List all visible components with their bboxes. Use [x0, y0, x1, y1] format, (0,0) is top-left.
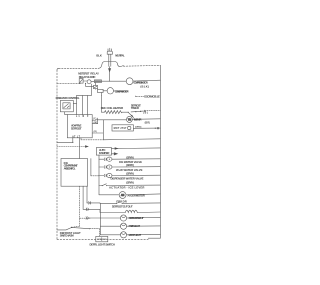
svg-text:NEUTRAL: NEUTRAL [115, 53, 125, 57]
right neutral bus [148, 65, 160, 238]
motor start relay cluster [79, 79, 103, 96]
svg-text:(BR): (BR) [145, 122, 151, 124]
compressor motor [126, 78, 133, 85]
freezer door switch rung [87, 202, 160, 205]
meat light bulb [120, 232, 126, 238]
rung board to timer motor [96, 119, 127, 121]
defrost heater rung [83, 209, 160, 212]
svg-text:DEFROST: DEFROST [71, 126, 82, 130]
wire cond fan right [114, 90, 129, 92]
cabinet outline bottom dashed [57, 238, 148, 240]
svg-text:AM: AM [121, 194, 124, 197]
defrost heater coil [125, 210, 137, 212]
ice compartment box [61, 159, 88, 187]
arrow on line cord [109, 67, 111, 72]
dispenser water valve rung [99, 174, 160, 176]
svg-text:(GRAY): (GRAY) [126, 181, 134, 185]
dashed wire to door module [136, 95, 144, 97]
cabinet outline top-right dashed [124, 64, 161, 67]
svg-text:(GRAY): (GRAY) [126, 172, 134, 176]
wire cord to main rung [109, 71, 111, 81]
svg-text:SWITCH ASM: SWITCH ASM [60, 234, 75, 238]
svg-text:AT LT: AT LT [72, 135, 81, 138]
node: dotted rung left bus to relay [57, 83, 80, 85]
svg-text:(W): (W) [94, 122, 98, 124]
svg-text:FRZR LIGHT: FRZR LIGHT [129, 224, 141, 228]
meat light rung [100, 234, 160, 236]
dashed -(B)- rung [147, 109, 161, 111]
dispenser light rung [100, 216, 160, 219]
freezer light rung [100, 225, 160, 227]
cabinet outline top-left dashed [59, 67, 99, 69]
freezer control box [60, 100, 73, 111]
ice box right stubs [90, 159, 92, 176]
switch blade inside [64, 104, 69, 108]
ice box bottom drops [72, 186, 80, 227]
arrow from damper lower pin [112, 153, 118, 155]
w+w valve solenoid [107, 165, 112, 169]
wire NEUTRAL drop from plug [110, 54, 112, 66]
defrost light switch blade [72, 227, 90, 228]
svg-text:(GRAY): (GRAY) [126, 163, 134, 167]
rung damper to bus [112, 147, 161, 150]
svg-text:MEAT LIGHT: MEAT LIGHT [129, 233, 142, 237]
svg-text:COND. FAN MOTOR: COND. FAN MOTOR [115, 90, 129, 94]
auger motor rung [99, 193, 160, 196]
svg-text:(GRAY): (GRAY) [126, 155, 134, 159]
ice water valve solenoid [107, 157, 112, 161]
svg-text:FRZ DR: FRZ DR [116, 200, 126, 204]
svg-text:BLK: BLK [96, 53, 102, 57]
svg-text:AUGER MOTOR: AUGER MOTOR [127, 194, 144, 198]
wire compressor to bus [133, 79, 160, 82]
cabinet outline left side dashed [56, 70, 58, 239]
dashed rung from board bottom pin [81, 138, 103, 140]
dashed from switch to door box [90, 229, 100, 237]
dispenser light bulb [120, 215, 126, 221]
valve rail [98, 155, 100, 195]
wire bus to switch [57, 228, 72, 230]
vertical feed left of timer box [102, 120, 104, 140]
wires from relay area to board [77, 95, 92, 114]
svg-text:L1 N F: L1 N F [76, 116, 89, 118]
svg-text:DEFRL LIGHT SWITCH: DEFRL LIGHT SWITCH [90, 243, 116, 247]
svg-text:DEFROST CUT OUT: DEFROST CUT OUT [112, 204, 133, 208]
cabinet outline hump [99, 62, 124, 69]
rung timer motor to bus [132, 118, 160, 121]
svg-text:TIMER: TIMER [131, 106, 139, 110]
condenser fan motor [107, 88, 113, 94]
actuator switch [102, 184, 106, 186]
timer switch arm [128, 112, 129, 113]
ice water valve rung [99, 158, 160, 160]
wire timer box to bus [133, 127, 160, 129]
dashed arrow rung to damper [57, 146, 85, 148]
defrost timer box [112, 125, 133, 131]
w+w water valve rung [99, 166, 160, 168]
rung left bus to board bottom [57, 141, 73, 143]
svg-text:(B): (B) [143, 113, 148, 115]
defrost coil heater zigzag [102, 111, 129, 114]
svg-text:DISPENSER LIGHT: DISPENSER LIGHT [129, 216, 144, 220]
svg-text:MOT 2797: MOT 2797 [114, 127, 127, 130]
adaptive defrost control board [67, 115, 92, 138]
rung to bus below timer [103, 139, 160, 140]
svg-text:FREEZER CONTROL: FREEZER CONTROL [56, 96, 80, 100]
auger motor [119, 192, 126, 199]
svg-text:(ORG): (ORG) [135, 127, 142, 129]
svg-text:(R): (R) [94, 131, 98, 133]
svg-text:AND CONTROL: AND CONTROL [64, 166, 76, 170]
main rung to compressor [102, 80, 127, 82]
coil heater riser [101, 96, 103, 113]
power plug [107, 48, 112, 54]
freezer light bulb [120, 223, 126, 229]
auto damper box [96, 148, 111, 156]
door switch box [96, 236, 108, 241]
board bottom pin wires [73, 138, 80, 159]
door switch blade [116, 201, 121, 203]
wire BLK drop from plug [108, 54, 110, 66]
actuator rung [99, 184, 160, 186]
text labels (tiny) [56, 53, 160, 246]
svg-text:ACTUATOR - ICE LEVER: ACTUATOR - ICE LEVER [109, 185, 145, 189]
svg-text:DOOR MODULE: DOOR MODULE [144, 95, 160, 99]
connector marks [89, 202, 91, 205]
svg-text:DEF. COIL HEATER: DEF. COIL HEATER [101, 106, 124, 110]
wire cluster to cond fan [103, 90, 107, 92]
svg-text:DAMPER: DAMPER [99, 151, 110, 155]
defrost timer motor [126, 116, 132, 122]
svg-text:(Y): (Y) [93, 118, 97, 120]
svg-text:TM: TM [128, 119, 131, 121]
dispenser valve solenoid [107, 173, 112, 177]
svg-text:TIMER MTR: TIMER MTR [133, 118, 141, 122]
freezer control inner switch box [63, 103, 70, 109]
svg-text:(BLK): (BLK) [140, 85, 149, 89]
svg-text:RELAY GUARD: RELAY GUARD [79, 75, 96, 79]
board pin stubs right [92, 120, 103, 133]
